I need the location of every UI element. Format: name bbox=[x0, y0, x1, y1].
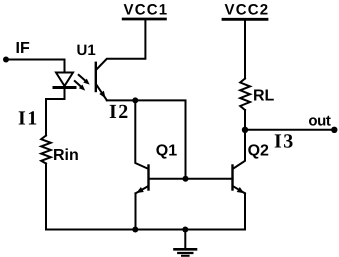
wire I2 line (U1 emitter to Q1 collector loop) bbox=[107, 100, 186, 178]
wire LED anode drop bbox=[64, 60, 66, 74]
transistor Q1 collector bbox=[135, 100, 148, 168]
wire base rail Q1-Q2 bbox=[149, 178, 233, 180]
wire RL to out node bbox=[244, 110, 246, 130]
svg-text:Q2: Q2 bbox=[248, 143, 269, 160]
transistor Q2 base bar bbox=[231, 166, 233, 190]
phototransistor U1 collector bbox=[96, 20, 145, 71]
svg-text:RL: RL bbox=[253, 88, 275, 105]
node out terminal bbox=[331, 127, 337, 133]
svg-text:Rin: Rin bbox=[53, 147, 79, 164]
wire bottom ground rail bbox=[46, 229, 245, 231]
wire Q2 emitter to rail bbox=[244, 193, 246, 229]
svg-text:out: out bbox=[308, 113, 331, 130]
svg-text:VCC2: VCC2 bbox=[225, 2, 270, 19]
wire LED cathode to Rin bbox=[46, 89, 65, 136]
wire IF input horizontal bbox=[6, 59, 65, 61]
transistor Q1 emitter with arrow bbox=[136, 186, 149, 193]
phototransistor U1 emitter with arrow bbox=[96, 84, 107, 100]
svg-text:I1: I1 bbox=[18, 108, 39, 130]
wire Q1 emitter to rail bbox=[135, 193, 137, 229]
VCC2 supply bar bbox=[223, 18, 267, 21]
LED of optocoupler U1 (anode top, cathode bottom) bbox=[56, 73, 73, 87]
phototransistor U1 base bar bbox=[95, 63, 97, 91]
node I2 junction bbox=[132, 97, 138, 103]
wire VCC2 to RL bbox=[244, 19, 246, 78]
svg-text:Q1: Q1 bbox=[156, 143, 177, 160]
transistor Q2 emitter with arrow bbox=[233, 186, 245, 193]
node base junction bbox=[183, 176, 189, 182]
light arrow 2 bbox=[75, 81, 85, 91]
resistor RL zigzag bbox=[240, 79, 250, 111]
ground bbox=[175, 230, 197, 256]
svg-text:U1: U1 bbox=[77, 42, 96, 59]
wire out line bbox=[245, 129, 334, 131]
transistor Q1 base bar bbox=[147, 166, 149, 190]
svg-text:IF: IF bbox=[16, 40, 30, 57]
transistor Q2 collector bbox=[233, 130, 245, 169]
VCC1 supply bar bbox=[123, 18, 165, 21]
resistor Rin zigzag bbox=[41, 136, 51, 164]
node ground stem on rail bbox=[182, 227, 188, 233]
light arrow 1 bbox=[79, 75, 90, 85]
svg-text:VCC1: VCC1 bbox=[124, 2, 169, 19]
node out junction bbox=[242, 127, 248, 133]
svg-text:I2: I2 bbox=[109, 101, 130, 123]
wire Rin to ground rail bbox=[45, 164, 47, 230]
svg-text:I3: I3 bbox=[274, 131, 295, 153]
node IF input terminal bbox=[3, 57, 9, 63]
node Q1 emitter on rail bbox=[132, 227, 138, 233]
